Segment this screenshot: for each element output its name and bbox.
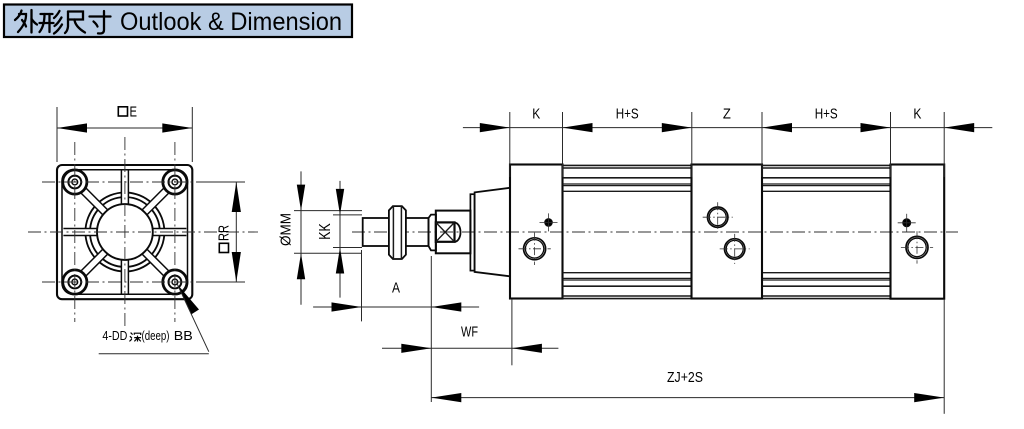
- middle block upper circle: [708, 207, 728, 227]
- svg-text:K: K: [532, 107, 540, 123]
- piston rod thread: [363, 218, 429, 246]
- dimension RR extension lines: [197, 181, 245, 183]
- rear port circle: [906, 236, 928, 258]
- svg-text:WF: WF: [461, 325, 478, 341]
- svg-text:K: K: [913, 107, 921, 123]
- dimension KK line: [339, 181, 341, 298]
- dimension WF line with outside arrows: [382, 347, 558, 349]
- dimension E label: [118, 107, 127, 116]
- flange spokes: [147, 229, 187, 236]
- dimension A extension lines: [361, 250, 363, 321]
- front cover lip: [470, 194, 474, 270]
- leader arrow to bolt hole: [177, 284, 199, 314]
- svg-text:RR: RR: [217, 225, 233, 241]
- flange inner contour: [62, 170, 188, 294]
- flange centerlines: [74, 142, 76, 322]
- flange corner bolt holes: [63, 170, 87, 194]
- middle block lower circle: [725, 239, 745, 259]
- dimension RR label: [217, 225, 233, 253]
- dimension KK extension lines: [333, 214, 362, 216]
- rear end cap: [891, 165, 945, 299]
- rod end block: [436, 211, 471, 254]
- svg-text:ØMM: ØMM: [279, 213, 295, 246]
- rod hex nut: [389, 206, 406, 259]
- rod collar: [429, 215, 437, 251]
- dimension RR line with arrows: [235, 182, 237, 282]
- svg-text:E: E: [130, 105, 138, 121]
- leader line: [177, 284, 209, 352]
- top dimension arrows: [480, 123, 510, 132]
- svg-text:Outlook & Dimension: Outlook & Dimension: [120, 8, 342, 36]
- rod dome: [455, 223, 461, 242]
- dimension ZJ+2S line with arrows: [431, 397, 944, 399]
- dimension MM line: [300, 171, 302, 304]
- middle cushion block: [692, 165, 763, 299]
- svg-text:A: A: [392, 281, 400, 297]
- front port circle: [524, 238, 546, 260]
- svg-text:KK: KK: [317, 223, 334, 240]
- svg-text:(deep): (deep): [142, 328, 170, 343]
- rod wrench flats square with cross: [436, 222, 455, 241]
- svg-text:ZJ+2S: ZJ+2S: [667, 370, 703, 386]
- title box: [4, 5, 352, 38]
- flange outer square: [57, 165, 192, 299]
- side view centerline: [352, 231, 958, 233]
- cylinder tube section 1 lines: [563, 164, 692, 166]
- title CJK text 外形尺寸: [15, 10, 111, 34]
- rod hex nut facets: [392, 206, 394, 259]
- rear breather dot: [903, 219, 911, 227]
- dimension ZJ+2S extension line rear: [943, 299, 945, 414]
- svg-text:H+S: H+S: [616, 107, 639, 123]
- top dimension line: [463, 127, 992, 129]
- cylinder tube section 2 lines: [762, 164, 891, 166]
- dimension WF extension line: [511, 299, 513, 365]
- svg-text:4-DD: 4-DD: [102, 328, 127, 343]
- svg-text:H+S: H+S: [815, 107, 838, 123]
- flange center bore: [97, 204, 153, 260]
- dimension E extension lines: [56, 107, 58, 162]
- front end cap: [510, 165, 563, 299]
- top dimension extension lines: [509, 112, 511, 177]
- svg-text:BB: BB: [174, 328, 193, 343]
- dimension E line with arrows: [57, 127, 192, 129]
- svg-text:Z: Z: [723, 107, 731, 123]
- front cover trapezoid: [475, 188, 510, 276]
- front breather dot: [545, 219, 552, 226]
- dimension A line with outside arrows: [313, 306, 479, 308]
- dimension MM extension lines: [294, 210, 362, 212]
- flange center rings: [85, 193, 164, 272]
